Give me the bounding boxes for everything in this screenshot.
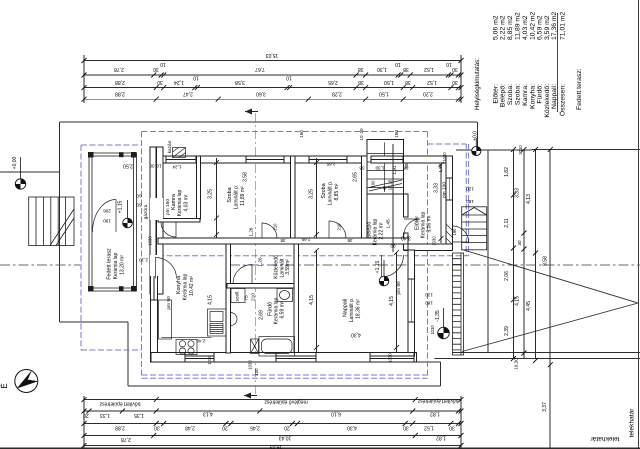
svg-text:10: 10 xyxy=(359,135,364,141)
svg-text:10,43: 10,43 xyxy=(279,434,292,440)
window Nappali east xyxy=(408,279,415,322)
window Szoba1 north xyxy=(246,156,284,163)
svg-text:10,30: 10,30 xyxy=(514,358,519,370)
svg-text:Laminált p.: Laminált p. xyxy=(349,298,355,322)
terrace corner posts xyxy=(88,152,137,292)
svg-text:38: 38 xyxy=(280,238,285,243)
window in stair north wall xyxy=(371,156,403,163)
svg-text:2,88: 2,88 xyxy=(115,424,125,430)
svg-text:15,03: 15,03 xyxy=(266,52,279,58)
svg-text:Konyha: Konyha xyxy=(176,276,182,294)
level marker +0,00 xyxy=(15,179,25,189)
svg-text:210: 210 xyxy=(337,223,342,231)
interior stair treads xyxy=(367,143,404,193)
Furdo north wall xyxy=(227,284,298,289)
svg-text:4,15: 4,15 xyxy=(389,296,395,306)
svg-text:38: 38 xyxy=(358,66,364,72)
NW exterior stair xyxy=(29,197,74,246)
gable wall line x488 xyxy=(487,149,489,352)
svg-text:Kerámia lap: Kerámia lap xyxy=(177,189,183,216)
section arrowheads xyxy=(244,109,252,399)
window/door Nappali south xyxy=(370,353,414,363)
svg-text:3,33: 3,33 xyxy=(434,183,440,193)
bottom dimension chains xyxy=(84,396,461,448)
svg-text:Belépő:: Belépő: xyxy=(500,84,507,107)
kitchen counter + sink xyxy=(208,309,227,336)
top chain labels (upside down) xyxy=(114,52,458,96)
svg-text:6,59 m²: 6,59 m² xyxy=(280,301,286,318)
roof overhang blue dashed outline xyxy=(81,132,469,379)
north exterior wall xyxy=(151,156,446,163)
svg-text:120: 120 xyxy=(466,186,474,191)
plot boundary line right xyxy=(549,149,551,448)
svg-text:2,88: 2,88 xyxy=(115,90,125,96)
svg-text:1,50: 1,50 xyxy=(384,79,394,85)
svg-text:30: 30 xyxy=(517,240,522,246)
wall Szoba1 | Szoba2 xyxy=(291,156,296,244)
svg-text:2,65: 2,65 xyxy=(353,172,359,182)
svg-text:+1,15: +1,15 xyxy=(118,200,124,213)
section arrow top xyxy=(245,111,258,113)
sheet bottom border xyxy=(0,447,640,449)
svg-text:206: 206 xyxy=(103,208,111,213)
svg-text:190: 190 xyxy=(452,228,457,236)
svg-text:4,03 m²: 4,03 m² xyxy=(184,194,190,211)
svg-text:Laminált p.: Laminált p. xyxy=(234,185,240,209)
svg-text:2,48: 2,48 xyxy=(185,424,195,430)
svg-text:É: É xyxy=(0,383,9,388)
svg-text:10,42 m²: 10,42 m² xyxy=(189,276,195,296)
svg-text:bővített épületrész: bővített épületrész xyxy=(99,401,140,407)
stair block enclosure (projecting north) xyxy=(367,140,404,195)
svg-text:210: 210 xyxy=(273,223,278,231)
svg-text:1,50: 1,50 xyxy=(379,90,389,96)
svg-text:Összesen:: Összesen: xyxy=(558,84,566,116)
eloter entry door arc xyxy=(453,226,469,242)
south exterior wall xyxy=(151,353,417,363)
svg-text:30: 30 xyxy=(449,424,455,430)
svg-text:7,67: 7,67 xyxy=(255,66,265,72)
svg-text:2,10: 2,10 xyxy=(139,257,148,262)
svg-text:210: 210 xyxy=(251,293,257,301)
svg-text:2,88: 2,88 xyxy=(115,79,125,85)
svg-text:190: 190 xyxy=(103,218,111,223)
svg-text:Szoba:: Szoba: xyxy=(515,84,522,105)
underline for Nappali row xyxy=(556,13,558,112)
fence south-east double xyxy=(435,353,640,359)
svg-text:telekhatár: telekhatár xyxy=(629,408,636,438)
level marker +0,0 ne xyxy=(472,146,481,155)
level marker -1,35 xyxy=(438,327,450,339)
svg-text:5,06 m2: 5,06 m2 xyxy=(493,15,500,40)
svg-text:3,40: 3,40 xyxy=(401,234,411,240)
svg-text:Fedett terasz:: Fedett terasz: xyxy=(576,68,583,110)
svg-text:3,37: 3,37 xyxy=(542,402,548,412)
dash-dot property line horizontal xyxy=(0,264,640,266)
svg-text:1030: 1030 xyxy=(248,360,253,370)
svg-text:38: 38 xyxy=(347,238,352,243)
window Eloter east xyxy=(446,178,453,200)
window Kamra north xyxy=(166,156,196,163)
svg-text:Nappali:: Nappali: xyxy=(551,84,558,109)
section line vertical dash-dot xyxy=(255,113,257,396)
wall Belepo|Eloter lower xyxy=(404,233,409,250)
bathroom sink xyxy=(231,313,238,326)
svg-text:2,20: 2,20 xyxy=(423,90,433,96)
svg-text:2,78: 2,78 xyxy=(121,436,131,442)
konyha door arc xyxy=(156,258,177,279)
svg-text:11,89 m²: 11,89 m² xyxy=(240,186,246,206)
svg-text:kazán: kazán xyxy=(167,140,173,153)
svg-text:15,03: 15,03 xyxy=(270,443,283,449)
svg-text:30: 30 xyxy=(149,163,155,168)
svg-text:2,65: 2,65 xyxy=(301,237,310,242)
svg-text:+1,15: +1,15 xyxy=(375,260,381,273)
svg-text:2,06: 2,06 xyxy=(504,271,510,281)
svg-text:pm 90: pm 90 xyxy=(166,296,172,310)
svg-text:1,82: 1,82 xyxy=(430,410,440,416)
svg-text:17,36 m2: 17,36 m2 xyxy=(551,11,558,40)
svg-text:100: 100 xyxy=(371,180,376,188)
svg-text:6,59 m2: 6,59 m2 xyxy=(537,15,544,40)
svg-text:1,33: 1,33 xyxy=(100,412,110,418)
svg-text:2,50: 2,50 xyxy=(123,162,133,168)
svg-text:71,01 m2: 71,01 m2 xyxy=(559,11,566,40)
svg-text:Nappali: Nappali xyxy=(343,299,349,317)
svg-text:90: 90 xyxy=(390,243,396,248)
svg-text:3010: 3010 xyxy=(518,145,523,155)
svg-text:5,06 m²: 5,06 m² xyxy=(427,215,433,232)
kamra door arc xyxy=(161,222,176,237)
svg-text:75: 75 xyxy=(244,295,250,301)
sheet right edge line xyxy=(638,0,640,449)
svg-text:180: 180 xyxy=(466,199,474,204)
svg-text:4,45: 4,45 xyxy=(526,301,532,311)
kitchen stove xyxy=(176,340,197,355)
svg-text:1030: 1030 xyxy=(388,353,393,363)
szoba2 door arc xyxy=(329,221,346,238)
svg-text:180: 180 xyxy=(425,300,433,305)
svg-text:50: 50 xyxy=(136,202,142,207)
svg-text:Fedett terasz: Fedett terasz xyxy=(107,248,113,280)
svg-text:2,65: 2,65 xyxy=(328,79,338,85)
svg-text:3,25: 3,25 xyxy=(309,189,315,199)
svg-text:Kamra:: Kamra: xyxy=(522,84,529,106)
svg-text:szell.: szell. xyxy=(235,291,241,302)
svg-text:1,82: 1,82 xyxy=(504,167,510,177)
svg-text:Szoba: Szoba xyxy=(321,183,327,198)
svg-text:-1,35: -1,35 xyxy=(435,310,441,322)
east wall poche hatch xyxy=(446,224,453,245)
svg-text:4,03 m2: 4,03 m2 xyxy=(522,15,529,40)
WC xyxy=(277,289,293,302)
svg-text:Fürdő:: Fürdő: xyxy=(537,84,544,104)
svg-text:1,52: 1,52 xyxy=(424,424,434,430)
west exterior wall upper xyxy=(157,147,164,294)
svg-text:1,30: 1,30 xyxy=(375,165,384,170)
svg-text:1,24: 1,24 xyxy=(174,79,184,85)
svg-text:30: 30 xyxy=(359,128,364,134)
svg-text:10: 10 xyxy=(395,61,401,67)
north arrow xyxy=(0,370,38,393)
svg-text:1,52: 1,52 xyxy=(424,66,434,72)
window Furdo south xyxy=(276,353,316,363)
svg-text:2,69: 2,69 xyxy=(259,310,265,320)
svg-text:1,26: 1,26 xyxy=(258,257,264,267)
svg-text:Szoba: Szoba xyxy=(227,187,233,202)
svg-text:1030: 1030 xyxy=(430,325,435,335)
svg-text:3,33: 3,33 xyxy=(515,188,521,198)
svg-text:4,13: 4,13 xyxy=(203,410,213,416)
svg-text:8,58: 8,58 xyxy=(543,256,549,266)
svg-text:10: 10 xyxy=(446,61,452,67)
svg-text:1,26: 1,26 xyxy=(249,227,254,236)
svg-text:4,30: 4,30 xyxy=(347,424,357,430)
svg-text:3,58: 3,58 xyxy=(243,172,249,182)
svg-text:1,45: 1,45 xyxy=(386,219,392,229)
wall Konyha | Furdo/Kozlekedo xyxy=(226,244,231,353)
svg-text:Kerámia lap: Kerámia lap xyxy=(183,273,189,300)
wall Kamra | Szoba1 xyxy=(197,156,201,219)
svg-text:+0,0: +0,0 xyxy=(473,131,479,141)
svg-text:2,22 m2: 2,22 m2 xyxy=(500,15,507,40)
svg-text:1030: 1030 xyxy=(207,355,212,365)
svg-text:20: 20 xyxy=(284,424,290,430)
svg-text:3,25: 3,25 xyxy=(208,189,214,199)
svg-text:1,30: 1,30 xyxy=(377,66,387,72)
NE exterior stair (entrance steps) xyxy=(462,207,487,250)
svg-text:8,85 m²: 8,85 m² xyxy=(334,183,340,200)
south wall of Eloter / Belepo xyxy=(404,244,453,251)
svg-text:pm 100: pm 100 xyxy=(442,182,448,198)
svg-text:20: 20 xyxy=(83,412,89,418)
wall Kamra south xyxy=(158,219,200,223)
svg-text:10: 10 xyxy=(160,61,166,67)
top chain ticks xyxy=(82,58,464,102)
svg-text:4,15: 4,15 xyxy=(515,296,521,306)
svg-text:10: 10 xyxy=(156,163,162,168)
szell shaft xyxy=(231,289,245,303)
svg-text:30: 30 xyxy=(452,66,458,72)
svg-text:2,22 m²: 2,22 m² xyxy=(379,222,385,239)
bathtub xyxy=(259,337,295,357)
door opening terrace-house west wall xyxy=(150,198,163,220)
svg-text:pm 150: pm 150 xyxy=(165,199,171,215)
east wall of Nappali with window zone xyxy=(408,250,415,356)
svg-text:10: 10 xyxy=(193,74,199,80)
svg-text:18,36 m²: 18,36 m² xyxy=(356,299,362,319)
svg-text:20: 20 xyxy=(222,424,228,430)
interior dimension lines xyxy=(217,144,442,352)
window Szoba2 north xyxy=(309,156,347,163)
wall Szoba2 | stair xyxy=(362,156,368,244)
svg-text:Laminált p.: Laminált p. xyxy=(328,181,334,205)
terrace door arc xyxy=(93,200,117,233)
svg-text:bővített épületrész: bővített épületrész xyxy=(417,398,458,404)
window Konyha west xyxy=(151,275,158,300)
svg-text:10,42 m2: 10,42 m2 xyxy=(530,11,537,40)
svg-text:2,78: 2,78 xyxy=(114,66,124,72)
svg-text:Szoba:: Szoba: xyxy=(507,84,514,105)
section arrow bottom xyxy=(244,395,257,397)
svg-text:2,40: 2,40 xyxy=(196,338,205,343)
belepo-eloter door arc xyxy=(404,219,420,235)
east wall of Eloter wing xyxy=(446,156,453,251)
svg-text:30: 30 xyxy=(403,424,409,430)
svg-text:2,65: 2,65 xyxy=(326,161,335,166)
terrace east wall xyxy=(150,147,156,294)
room schedule list xyxy=(474,11,583,117)
svg-text:3,59 m2: 3,59 m2 xyxy=(544,15,551,40)
svg-text:1030: 1030 xyxy=(442,152,447,162)
svg-text:30: 30 xyxy=(157,79,163,85)
svg-text:30: 30 xyxy=(452,79,458,85)
svg-text:150: 150 xyxy=(299,130,304,138)
svg-text:+0,00: +0,00 xyxy=(12,156,18,169)
wall Belepo|Eloter upper xyxy=(404,194,409,217)
kitchen counter west xyxy=(159,300,172,339)
door opening Konyha west xyxy=(150,255,158,276)
west exterior wall lower xyxy=(151,294,158,362)
svg-text:1030: 1030 xyxy=(432,236,437,246)
svg-text:4,15: 4,15 xyxy=(208,295,214,305)
svg-text:2,47: 2,47 xyxy=(183,90,193,96)
svg-text:38: 38 xyxy=(359,165,365,170)
svg-text:Kerámia lap: Kerámia lap xyxy=(113,252,119,279)
svg-text:10: 10 xyxy=(286,74,292,80)
svg-text:4,30: 4,30 xyxy=(351,331,361,337)
roof gable triangle right xyxy=(462,250,638,352)
svg-text:4,15: 4,15 xyxy=(309,295,315,305)
svg-text:gázóra: gázóra xyxy=(143,204,149,219)
level marker terrace +1,15 xyxy=(123,218,133,228)
svg-text:120: 120 xyxy=(425,292,433,297)
belepo-nappali door arc xyxy=(382,255,404,277)
svg-text:1,91: 1,91 xyxy=(392,165,397,174)
svg-text:2,28: 2,28 xyxy=(332,90,342,96)
window Konyha south xyxy=(185,353,214,363)
svg-text:4,13: 4,13 xyxy=(526,194,532,204)
svg-text:100: 100 xyxy=(254,368,259,376)
E exterior stair (long) xyxy=(453,253,464,355)
svg-text:1,52: 1,52 xyxy=(427,79,437,85)
svg-text:1,52: 1,52 xyxy=(438,163,443,172)
svg-text:3,59m²: 3,59m² xyxy=(285,259,291,275)
svg-text:1030: 1030 xyxy=(148,236,153,246)
svg-text:30: 30 xyxy=(154,424,160,430)
svg-text:3,58: 3,58 xyxy=(235,79,245,85)
svg-text:38: 38 xyxy=(405,79,411,85)
svg-text:2,39: 2,39 xyxy=(504,326,510,336)
svg-text:3,60: 3,60 xyxy=(256,90,266,96)
svg-text:13,20 m²: 13,20 m² xyxy=(120,255,126,275)
corridor wall horizontal xyxy=(158,238,408,244)
bottom chain labels (upside down) xyxy=(83,398,458,449)
svg-text:pm 90: pm 90 xyxy=(396,281,402,295)
svg-text:1,24: 1,24 xyxy=(172,164,181,169)
svg-text:38: 38 xyxy=(358,79,364,85)
svg-text:8,85 m2: 8,85 m2 xyxy=(507,15,514,40)
kazan niche hatched xyxy=(173,148,186,158)
svg-text:1,82: 1,82 xyxy=(436,434,446,440)
svg-text:150: 150 xyxy=(394,130,399,138)
svg-text:meglévő épületrész: meglévő épületrész xyxy=(264,399,308,405)
svg-text:60: 60 xyxy=(136,193,142,198)
svg-text:6,10: 6,10 xyxy=(331,410,341,416)
svg-text:Közlekedő:: Közlekedő: xyxy=(544,84,551,118)
fence north xyxy=(60,122,640,150)
svg-text:38: 38 xyxy=(403,165,409,170)
level marker nappali +1,15 xyxy=(379,276,389,286)
svg-text:10,10: 10,10 xyxy=(388,179,393,190)
svg-text:38: 38 xyxy=(403,66,409,72)
svg-text:11,89 m2: 11,89 m2 xyxy=(515,12,522,40)
svg-text:telekhatár: telekhatár xyxy=(590,435,620,442)
furdo door arc xyxy=(233,265,252,284)
property line west step xyxy=(0,122,441,386)
svg-text:Konyha:: Konyha: xyxy=(530,84,537,109)
wall Furdo/Kozlekedo | Nappali xyxy=(294,244,299,353)
svg-text:2,45: 2,45 xyxy=(250,424,260,430)
svg-text:Helyiségkimutatás:: Helyiségkimutatás: xyxy=(474,58,481,110)
svg-text:2,11: 2,11 xyxy=(504,218,510,228)
svg-text:30: 30 xyxy=(153,66,159,72)
interior walls xyxy=(158,156,408,353)
szoba1 door arc xyxy=(262,223,277,238)
svg-text:Előtér:: Előtér: xyxy=(493,84,500,104)
door openings (white) xyxy=(162,219,346,287)
svg-text:1,35: 1,35 xyxy=(134,412,144,418)
